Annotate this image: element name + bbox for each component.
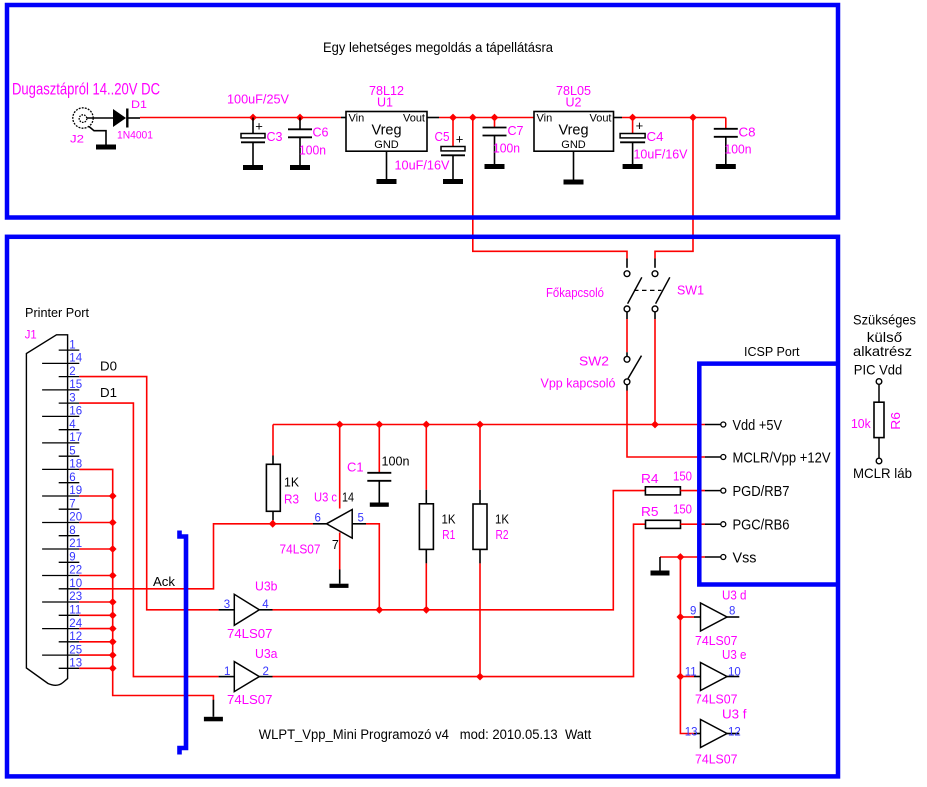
resistor R3 1K: [266, 464, 280, 511]
svg-text:R3: R3: [284, 493, 299, 507]
svg-text:alkatrész: alkatrész: [853, 343, 912, 359]
svg-text:MCLR/Vpp +12V: MCLR/Vpp +12V: [733, 450, 831, 466]
connector J2: [73, 108, 93, 128]
wire J1 pin 25 to ground bus: [79, 654, 112, 656]
svg-text:Vin: Vin: [537, 113, 553, 125]
wire R3 top lead: [272, 456, 274, 465]
svg-text:J1: J1: [25, 330, 37, 342]
J1 pin 6: [59, 482, 80, 484]
ICSP pin Vdd +5V: [705, 424, 721, 426]
svg-text:Dugasztápról 14..20V DC: Dugasztápról 14..20V DC: [12, 79, 160, 98]
wire J1 pin 21 to ground bus: [79, 548, 112, 550]
svg-text:5: 5: [69, 445, 75, 457]
junction ground bus pin 13: [109, 664, 117, 672]
wire rail D1 to U1: [140, 117, 341, 119]
capacitor C5 10uF/16V: [441, 147, 465, 151]
svg-text:9: 9: [690, 606, 696, 618]
J1 pin 23: [42, 601, 79, 603]
svg-text:74LS07: 74LS07: [227, 693, 273, 707]
wire to U3e input: [680, 676, 694, 678]
wire Vss to U3d/e/f inputs: [680, 557, 694, 734]
svg-text:R2: R2: [496, 528, 509, 542]
svg-text:14: 14: [342, 491, 354, 505]
wire Vss net: [660, 556, 705, 558]
svg-text:Printer Port: Printer Port: [25, 305, 89, 320]
wire to U3d input: [680, 616, 694, 618]
svg-text:2: 2: [69, 366, 75, 378]
wire U3d pin9 lead: [694, 616, 701, 618]
wire R6 bottom lead: [878, 438, 880, 459]
wire U3b out to R4: [273, 491, 646, 610]
J1 pin 9: [59, 561, 80, 563]
J1 pin 1: [59, 349, 80, 351]
wire rail U1 to U2: [439, 117, 534, 119]
wire J1 ground bus: [79, 469, 213, 700]
wire C4 bottom lead: [632, 142, 634, 164]
frame: top power-supply box: [7, 5, 838, 218]
svg-text:R6: R6: [889, 412, 903, 430]
svg-text:Vreg: Vreg: [558, 123, 588, 139]
wire SW1 B top stub: [654, 259, 656, 268]
switch SW2 contact 2: [624, 379, 630, 385]
capacitor C3 100uF/25V: [241, 134, 265, 138]
wire J1 pin 19 to ground bus: [79, 495, 112, 497]
svg-text:150: 150: [673, 503, 692, 517]
frame: ICSP port box: [699, 364, 838, 585]
wire U3 pin7 gnd stub: [339, 570, 341, 584]
svg-text:3: 3: [69, 392, 75, 404]
ground C3: [243, 165, 263, 170]
svg-text:6: 6: [69, 472, 75, 484]
svg-text:2: 2: [263, 666, 269, 678]
buffer U3c 74LS07: [327, 510, 353, 539]
svg-text:5: 5: [358, 513, 364, 525]
buffer U3a 74LS07: [234, 662, 259, 692]
wire 5V down to SW1 pole B: [655, 118, 693, 259]
junction ground bus pin 11: [109, 611, 117, 619]
switch SW2 contact 1: [624, 356, 630, 362]
J1 pin 19: [42, 495, 79, 497]
svg-text:R4: R4: [641, 472, 659, 486]
ground C1: [370, 503, 389, 507]
junction U3d input: [677, 613, 685, 621]
svg-text:U3 d: U3 d: [722, 589, 747, 603]
svg-text:Főkapcsoló: Főkapcsoló: [546, 286, 604, 300]
resistor R1 1K: [419, 504, 433, 550]
connector J1 DB25 body: [26, 335, 67, 685]
wire U3b pin4 lead: [259, 609, 272, 611]
wire R5 to PGC pin: [681, 523, 706, 525]
svg-text:U3 f: U3 f: [722, 708, 747, 722]
svg-text:GND: GND: [374, 139, 399, 151]
buffer U3b 74LS07: [234, 594, 259, 625]
wire C3 bottom lead: [252, 142, 254, 165]
wire R3 bottom lead: [272, 511, 274, 520]
wire U3a pin1 lead: [219, 676, 235, 678]
J1 pin 13: [59, 667, 80, 669]
wire Vdd +5V rail: [273, 424, 705, 426]
svg-text:17: 17: [69, 432, 82, 444]
J1 cable bracket (blue bus): [180, 531, 187, 755]
J1 pin 10: [59, 588, 80, 590]
wire SW2 bottom stub: [626, 385, 628, 391]
junction ground bus pin 23: [109, 598, 117, 606]
wire SW1 B bottom stub: [654, 312, 656, 319]
node C6 junction: [296, 114, 304, 122]
wire D1 pin3 to U3a input: [79, 403, 218, 676]
wire SW2 top stub: [626, 352, 628, 356]
wire R2 bottom lead: [479, 549, 481, 563]
wire U3e pin11 lead: [694, 676, 701, 678]
junction U3e input: [677, 673, 685, 681]
svg-text:C7: C7: [508, 124, 524, 138]
svg-text:Egy lehetséges megoldás a tápe: Egy lehetséges megoldás a tápellátásra: [323, 40, 553, 55]
svg-text:100uF/25V: 100uF/25V: [227, 93, 290, 107]
ICSP pin MCLR/Vpp +12V: [705, 456, 721, 458]
wire U3c pin5 lead: [352, 523, 366, 525]
wire C8 top lead: [725, 118, 727, 129]
switch SW1 blade B: [656, 277, 670, 303]
wire U1 Vin lead: [341, 117, 346, 119]
svg-text:100n: 100n: [299, 144, 326, 158]
J1 pin 22: [42, 575, 79, 577]
svg-text:10uF/16V: 10uF/16V: [634, 148, 689, 162]
svg-text:J2: J2: [70, 134, 84, 146]
svg-text:MCLR láb: MCLR láb: [853, 465, 912, 481]
junction ground bus pin 20: [109, 519, 117, 527]
svg-text:+: +: [636, 118, 644, 133]
junction ground bus pin 12: [109, 638, 117, 646]
capacitor C8 100n: [714, 129, 738, 137]
svg-text:C3: C3: [267, 130, 283, 144]
wire R2 to U3a out line: [479, 563, 481, 676]
wire Vdd down to R3: [272, 425, 274, 456]
svg-text:150: 150: [673, 470, 692, 484]
wire C7 top lead: [494, 118, 496, 128]
svg-text:U3 c: U3 c: [314, 491, 337, 505]
svg-text:Vss: Vss: [733, 550, 757, 566]
node C7 junction: [491, 114, 499, 122]
svg-text:U2: U2: [566, 95, 582, 109]
svg-text:PGC/RB6: PGC/RB6: [733, 518, 790, 534]
ground U2: [564, 180, 584, 185]
wire R6 top lead: [878, 384, 880, 402]
node C3 junction: [249, 114, 257, 122]
wire J1 pin 11 to ground bus: [79, 614, 112, 616]
svg-text:1K: 1K: [284, 476, 300, 490]
J1 pin 3: [59, 402, 80, 404]
svg-text:74LS07: 74LS07: [280, 543, 321, 557]
svg-text:R1: R1: [442, 528, 455, 542]
capacitor C7 100n: [483, 128, 507, 136]
resistor R6 10k: [874, 402, 884, 437]
svg-text:10k: 10k: [851, 417, 871, 431]
svg-text:Vout: Vout: [589, 113, 611, 125]
junction ground bus pin 22: [109, 572, 117, 580]
svg-text:15: 15: [69, 379, 82, 391]
svg-text:4: 4: [69, 419, 76, 431]
wire U2 Vout lead: [614, 117, 623, 119]
wire SW1 to SW2: [626, 319, 628, 352]
wire Ack pin10 to U3c output: [79, 524, 313, 589]
regulator U1 78L12 body: [346, 112, 427, 152]
wire J2 to D1: [87, 117, 113, 119]
wire Vss ground stub: [659, 557, 661, 571]
wire R1 bottom lead: [425, 549, 427, 563]
wire U3a out to R5: [273, 524, 646, 676]
node 12V takeoff: [469, 114, 477, 122]
junction R3 / Ack / U3c out: [269, 520, 277, 528]
svg-text:D1: D1: [131, 99, 147, 111]
wire Vdd down to R2: [479, 425, 481, 490]
J1 pin 8: [59, 535, 80, 537]
svg-text:U1: U1: [377, 95, 393, 109]
wire R1 to U3b out line: [425, 563, 427, 609]
svg-text:SW2: SW2: [579, 355, 609, 369]
ground C5: [443, 179, 463, 184]
junction ground bus pin 24: [109, 625, 117, 633]
capacitor C6 100n: [288, 129, 312, 137]
wire SW1 A top stub: [626, 259, 628, 268]
wire U3c pin6 lead: [313, 523, 327, 525]
junction ground bus pin 21: [109, 545, 117, 553]
J1 pin 15: [42, 389, 79, 391]
wire R3 to Ack net: [272, 520, 274, 524]
J1 pin 14: [42, 362, 79, 364]
wire Vdd down to R1: [425, 425, 427, 490]
wire U3c pin5 to U3b out line: [366, 524, 379, 610]
wire J1 pin 12 to ground bus: [79, 641, 112, 643]
J1 pin 24: [42, 628, 79, 630]
wire J1 pin 24 to ground bus: [79, 628, 112, 630]
svg-text:+: +: [456, 132, 464, 147]
svg-text:Vout: Vout: [403, 113, 425, 125]
svg-text:PGD/RB7: PGD/RB7: [733, 484, 790, 500]
svg-text:C5: C5: [435, 130, 450, 144]
wire J1 pin 22 to ground bus: [79, 575, 112, 577]
wire U3d pin8 lead: [727, 616, 739, 618]
junction U3a out / R2: [476, 673, 484, 681]
J1 pin 21: [42, 548, 79, 550]
ground J1 bus: [212, 700, 214, 717]
node C5 junction: [449, 114, 457, 122]
svg-text:Szükséges: Szükséges: [853, 312, 916, 328]
J1 pin 20: [42, 522, 79, 524]
svg-text:74LS07: 74LS07: [695, 634, 738, 648]
svg-text:1: 1: [224, 666, 230, 678]
svg-text:10uF/16V: 10uF/16V: [395, 159, 451, 173]
ICSP pin Vss: [705, 556, 721, 558]
wire C4 top lead: [632, 118, 634, 134]
wire C3 top lead: [252, 118, 254, 134]
svg-text:1K: 1K: [442, 513, 457, 527]
buffer U3d 74LS07: [701, 603, 728, 631]
svg-text:C4: C4: [647, 130, 664, 144]
wire SW1 A bottom stub: [626, 312, 628, 319]
wire D1 cathode lead: [129, 117, 141, 119]
svg-text:PIC Vdd: PIC Vdd: [854, 362, 902, 378]
wire U3 pin14 Vcc: [339, 425, 341, 509]
wire U3f pin13 lead: [694, 733, 701, 735]
switch SW2 blade: [628, 356, 642, 379]
switch SW1 link dashed: [634, 289, 662, 291]
wire U3a pin2 lead: [259, 676, 272, 678]
svg-text:C6: C6: [313, 126, 329, 140]
wire D0 pin2 to U3b input: [79, 377, 218, 610]
capacitor C1 100n: [367, 473, 391, 481]
svg-text:100n: 100n: [382, 455, 410, 469]
wire Vpp to MCLR pin: [627, 391, 705, 458]
ground C7: [485, 164, 505, 169]
wire U3 pin7 gnd upper: [339, 533, 341, 570]
svg-text:+: +: [255, 119, 263, 134]
ICSP pin PGD/RB7: [705, 490, 721, 492]
wire C7 bottom lead: [494, 136, 496, 165]
J1 pin 17: [42, 442, 79, 444]
wire U1 GND lead: [386, 151, 388, 179]
svg-text:Vdd +5V: Vdd +5V: [733, 418, 783, 434]
wire C5 top lead: [452, 118, 454, 147]
svg-text:WLPT_Vpp_Mini Programozó v4: WLPT_Vpp_Mini Programozó v4 mod: 2010.05…: [259, 727, 592, 742]
svg-text:12: 12: [728, 726, 741, 738]
svg-text:1: 1: [69, 339, 75, 351]
svg-text:3: 3: [224, 599, 230, 611]
junction Vss / buffer inputs: [677, 553, 685, 561]
wire U2 GND lead: [573, 151, 575, 179]
svg-text:10: 10: [728, 666, 741, 678]
ICSP pin PGC/RB6: [705, 523, 721, 525]
ground C6: [290, 165, 310, 170]
svg-text:16: 16: [69, 406, 82, 418]
wire U3e pin10 lead: [727, 676, 739, 678]
J1 pin 5: [59, 455, 80, 457]
J1 pin 12: [59, 641, 80, 643]
ground U3 pin7: [330, 584, 349, 588]
resistor R2 1K: [473, 504, 487, 549]
svg-text:7: 7: [69, 498, 75, 510]
svg-text:D0: D0: [100, 360, 117, 374]
wire C1 bottom lead: [378, 481, 380, 503]
switch SW1 contact A1: [624, 271, 630, 277]
junction ground bus pin 19: [109, 492, 117, 500]
svg-text:8: 8: [729, 606, 735, 618]
svg-text:74LS07: 74LS07: [227, 627, 273, 641]
wire U1 Vout lead: [427, 117, 439, 119]
switch SW1 blade A: [628, 277, 642, 303]
J1 pin 7: [59, 508, 80, 510]
svg-text:U3a: U3a: [255, 647, 278, 661]
ground U1: [377, 179, 397, 184]
wire 12V down to SW1 pole A: [473, 118, 627, 259]
wire C5 bottom lead: [452, 155, 454, 179]
wire J1 pin 20 to ground bus: [79, 522, 112, 524]
svg-text:100n: 100n: [725, 143, 752, 157]
resistor R4 150: [645, 487, 680, 495]
buffer U3e 74LS07: [701, 663, 728, 691]
svg-text:1K: 1K: [495, 513, 510, 527]
junction Vdd / C1: [375, 421, 383, 429]
ground J2: [96, 145, 116, 150]
J1 pin 11: [59, 614, 80, 616]
svg-text:100n: 100n: [493, 142, 520, 156]
junction Vdd / SW1 feed: [651, 421, 659, 429]
svg-text:C8: C8: [739, 126, 756, 140]
wire R1 top lead: [425, 490, 427, 504]
svg-text:Vpp kapcsoló: Vpp kapcsoló: [541, 377, 616, 391]
svg-text:Vreg: Vreg: [371, 123, 401, 139]
svg-text:ICSP Port: ICSP Port: [744, 344, 800, 359]
junction U3b out / R1: [422, 606, 430, 614]
diode D1 1N4001: [113, 109, 126, 127]
svg-text:Vin: Vin: [349, 113, 365, 125]
svg-text:74LS07: 74LS07: [695, 753, 738, 767]
J1 pin 25: [42, 654, 79, 656]
wire U3f pin12 lead: [727, 733, 739, 735]
svg-text:C1: C1: [347, 461, 364, 475]
svg-text:U3b: U3b: [255, 579, 278, 593]
svg-text:1N4001: 1N4001: [117, 130, 153, 142]
switch SW1 contact A2: [624, 306, 630, 312]
frame: main circuit box: [7, 237, 838, 777]
svg-text:13: 13: [685, 726, 698, 738]
terminal MCLR láb: [876, 458, 882, 464]
wire J1 pin 13 to ground bus: [79, 667, 112, 669]
svg-text:6: 6: [315, 513, 321, 525]
wire 5V switched down to Vdd rail: [654, 319, 656, 425]
svg-text:14: 14: [69, 353, 82, 365]
svg-text:SW1: SW1: [677, 284, 704, 298]
regulator U2 78L05 body: [534, 112, 614, 152]
svg-text:D1: D1: [100, 386, 117, 400]
J1 pin 4: [59, 429, 80, 431]
wire R2 top lead: [479, 490, 481, 504]
ground C4: [623, 164, 643, 169]
svg-text:7: 7: [332, 538, 339, 552]
svg-text:8: 8: [69, 525, 75, 537]
wire C6 top lead: [299, 118, 301, 130]
capacitor C4 10uF/16V: [620, 134, 645, 138]
junction Vdd / R2: [476, 421, 484, 429]
svg-text:4: 4: [262, 599, 269, 611]
svg-text:11: 11: [685, 666, 697, 678]
wire C8 bottom lead: [725, 137, 727, 164]
svg-text:R5: R5: [641, 505, 659, 519]
svg-text:9: 9: [69, 552, 75, 564]
switch SW1 contact B2: [652, 306, 658, 312]
buffer U3f 74LS07: [701, 720, 728, 748]
wire C6 bottom lead: [299, 137, 301, 165]
wire J1 pin 23 to ground bus: [79, 601, 112, 603]
svg-text:U3 e: U3 e: [722, 648, 747, 662]
node C4 junction: [629, 114, 637, 122]
wire rail U2 to C8: [622, 117, 726, 119]
svg-text:74LS07: 74LS07: [695, 693, 738, 707]
wire R4 to PGD pin: [680, 490, 705, 492]
junction Vdd / R1: [422, 421, 430, 429]
switch SW1 contact B1: [652, 271, 658, 277]
junction U3b out / U3c pin5: [375, 606, 383, 614]
J1 pin 16: [42, 415, 79, 417]
node 5V takeoff: [689, 114, 697, 122]
wire J2 sleeve to ground: [89, 127, 106, 145]
J1 pin 18: [42, 468, 79, 470]
resistor R5 150: [646, 520, 681, 528]
terminal PIC Vdd: [876, 379, 882, 385]
junction ground bus pin 25: [109, 651, 117, 659]
J1 pin 2: [59, 376, 80, 378]
svg-text:GND: GND: [561, 139, 586, 151]
ground Vss: [651, 571, 670, 576]
